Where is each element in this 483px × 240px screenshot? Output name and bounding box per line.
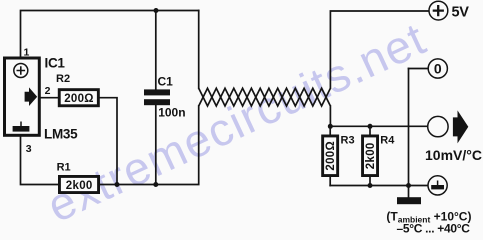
svg-text:–5°C ... +40°C: –5°C ... +40°C: [397, 222, 471, 233]
terminal ground: [428, 176, 447, 195]
IC1 LM35 body: [5, 58, 40, 135]
wire: C1 branch bottom: [155, 105, 157, 184]
svg-text:3: 3: [26, 143, 32, 155]
resistor R1 box: [59, 176, 98, 192]
IC1 plus terminal circle: [14, 64, 28, 78]
capacitor C1 plates: [144, 89, 170, 95]
svg-text:R1: R1: [57, 162, 71, 174]
output arrow: [453, 110, 468, 143]
wire: right pair upper stub and top-right rail to 5V: [330, 11, 429, 88]
terminal 0: [428, 59, 447, 78]
resistor R4 box: [363, 136, 378, 176]
svg-text:1: 1: [24, 47, 30, 59]
terminal +5V: [429, 1, 448, 20]
wire: C1 branch top: [155, 11, 157, 90]
svg-text:R4: R4: [380, 134, 395, 146]
IC1 minus symbol: [13, 126, 30, 132]
wire: R2 right to bottom rail: [100, 98, 117, 185]
junction node: R4 top: [368, 124, 373, 129]
junction node: pair / R3 rail: [328, 124, 333, 129]
ground symbol: [397, 197, 421, 204]
junction node: top rail / C1: [154, 8, 159, 13]
resistor R3 box: [323, 136, 338, 176]
svg-text:R2: R2: [56, 73, 70, 85]
wire: 0-terminal wire: [409, 68, 429, 70]
wire: IC1 pin1 up and top-left rail to pair: [21, 11, 199, 58]
svg-text:R3: R3: [341, 134, 355, 146]
wire: output rail R3/R4 top to output terminal: [330, 125, 428, 127]
wire: R4 leads: [369, 126, 371, 185]
junction node: ground bus / bottom rail: [406, 183, 411, 188]
svg-text:IC1: IC1: [45, 56, 66, 71]
svg-text:2: 2: [45, 85, 51, 97]
wire: IC1 pin3 down and to R1: [21, 137, 59, 185]
twisted pair cable: [199, 88, 331, 106]
junction node: R4 bottom: [368, 183, 373, 188]
wire: IC1 pin2 to R2: [41, 97, 58, 99]
junction node: bottom rail / C1: [153, 182, 158, 187]
junction node: bottom rail / R2 branch: [115, 182, 120, 187]
wire: left pair upper stub: [198, 11, 200, 89]
svg-text:LM35: LM35: [44, 127, 78, 142]
svg-text:10mV/°C: 10mV/°C: [425, 147, 482, 163]
svg-text:2k00: 2k00: [66, 180, 93, 192]
svg-text:2k00: 2k00: [365, 142, 377, 169]
wire: bottom-right rail to ground terminal: [330, 185, 428, 187]
wire: right pair lower stub to R3 rail: [329, 106, 331, 126]
svg-text:5V: 5V: [452, 4, 470, 20]
wire: bottom-left rail R1 to pair lower stub: [100, 106, 199, 185]
wire: ground bus vertical: [408, 69, 410, 198]
svg-text:C1: C1: [158, 75, 174, 89]
svg-text:200Ω: 200Ω: [64, 93, 94, 105]
IC1 output arrow: [25, 87, 38, 106]
terminal output: [428, 116, 448, 136]
svg-text:0: 0: [434, 61, 442, 77]
resistor R2 box: [59, 90, 98, 106]
svg-text:200Ω: 200Ω: [325, 141, 337, 171]
wire: R3 leads: [329, 126, 331, 185]
svg-text:100n: 100n: [158, 105, 185, 119]
